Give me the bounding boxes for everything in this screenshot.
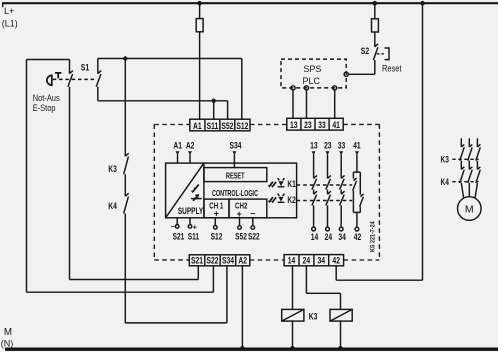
svg-text:K3: K3 <box>108 164 117 174</box>
svg-text:K3: K3 <box>309 312 318 322</box>
svg-text:S2: S2 <box>361 46 370 56</box>
svg-text:33: 33 <box>318 120 326 130</box>
svg-text:24: 24 <box>303 256 311 266</box>
svg-text:S34: S34 <box>230 141 242 151</box>
svg-text:K4: K4 <box>441 177 450 187</box>
svg-text:41: 41 <box>353 141 361 151</box>
svg-text:(L1): (L1) <box>2 19 18 29</box>
svg-text:K1: K1 <box>287 179 296 189</box>
svg-text:S12: S12 <box>236 121 248 131</box>
svg-text:+: + <box>193 222 198 231</box>
svg-text:S52: S52 <box>221 121 233 131</box>
svg-text:RESET: RESET <box>226 173 245 181</box>
svg-text:+: + <box>214 209 219 219</box>
svg-text:S11: S11 <box>188 231 200 241</box>
svg-text:CONTROL-LOGIC: CONTROL-LOGIC <box>212 190 258 198</box>
svg-text:K3: K3 <box>441 155 450 165</box>
svg-text:13: 13 <box>290 120 298 130</box>
svg-text:S22: S22 <box>248 231 260 241</box>
svg-text:23: 23 <box>324 141 332 151</box>
svg-text:S34: S34 <box>222 256 234 266</box>
svg-text:33: 33 <box>338 141 346 151</box>
svg-text:A1: A1 <box>193 121 202 131</box>
svg-text:S12: S12 <box>211 231 223 241</box>
svg-text:A2: A2 <box>186 141 195 151</box>
svg-text:42: 42 <box>354 232 362 242</box>
svg-text:K2: K2 <box>287 195 296 205</box>
svg-text:−: − <box>250 209 255 219</box>
svg-text:Reset: Reset <box>382 64 402 74</box>
svg-text:KS 221-7-24: KS 221-7-24 <box>370 221 377 252</box>
svg-text:M: M <box>4 327 12 338</box>
svg-text:L+: L+ <box>4 6 14 16</box>
svg-text:14: 14 <box>311 232 319 242</box>
svg-text:S52: S52 <box>235 231 247 241</box>
svg-text:K4: K4 <box>108 201 117 211</box>
svg-text:−: − <box>171 222 176 231</box>
svg-text:Not-Aus: Not-Aus <box>33 93 60 103</box>
svg-text:M: M <box>465 204 474 216</box>
svg-text:+: + <box>237 209 242 219</box>
svg-text:S1: S1 <box>81 62 90 72</box>
svg-text:E-Stop: E-Stop <box>33 103 56 113</box>
svg-text:34: 34 <box>338 232 346 242</box>
svg-text:(N): (N) <box>1 338 14 348</box>
svg-text:S11: S11 <box>207 121 219 131</box>
svg-text:S21: S21 <box>173 231 185 241</box>
svg-text:14: 14 <box>288 256 296 266</box>
svg-text:SUPPLY: SUPPLY <box>178 206 204 216</box>
svg-text:PLC: PLC <box>302 76 320 86</box>
svg-text:13: 13 <box>310 141 318 151</box>
svg-text:24: 24 <box>325 232 333 242</box>
svg-text:A2: A2 <box>238 256 247 266</box>
svg-text:34: 34 <box>318 256 326 266</box>
svg-text:S21: S21 <box>191 256 203 266</box>
svg-text:A1: A1 <box>173 141 182 151</box>
svg-text:S22: S22 <box>206 256 218 266</box>
svg-text:SPS: SPS <box>303 64 321 74</box>
svg-text:41: 41 <box>332 120 340 130</box>
svg-text:23: 23 <box>304 120 312 130</box>
svg-text:42: 42 <box>332 256 340 266</box>
